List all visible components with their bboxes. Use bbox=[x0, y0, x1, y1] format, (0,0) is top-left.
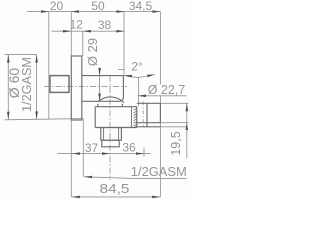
arrow 2deg left bbox=[124, 75, 132, 78]
arrow 38-left bbox=[83, 30, 91, 33]
svg-text:38: 38 bbox=[98, 18, 112, 32]
arrow dia29 top bbox=[98, 68, 101, 76]
thread hatch marks bbox=[134, 108, 137, 127]
arrow dia22,7 leader bbox=[138, 95, 146, 98]
nut chamfer left bbox=[103, 128, 105, 141]
collar bottom extension bbox=[160, 126, 187, 128]
centerline main axis y=88.4 bbox=[44, 85, 127, 87]
svg-text:36: 36 bbox=[122, 141, 136, 155]
centerline outlet vertical x=110 bbox=[109, 76, 111, 181]
ext tick y=119.6 left, continues to x83.3 bbox=[5, 119, 84, 120]
extension line x=82.8 (12 right) bbox=[82, 31, 84, 56]
dome side right bbox=[121, 104, 123, 107]
right tube top extension to 19,5 bbox=[160, 102, 188, 104]
right tube bottom bbox=[137, 122, 161, 124]
arrow 38-right bbox=[116, 30, 124, 33]
extension line x=48.8 (wall ref) bbox=[48, 12, 50, 120]
shoulder line bbox=[95, 106, 137, 108]
dome side left bbox=[97, 104, 99, 107]
svg-text:12: 12 bbox=[70, 18, 84, 32]
centerline right tube vertical bbox=[142, 102, 144, 128]
nut chamfer right bbox=[118, 128, 120, 141]
dia60 dim line bbox=[7, 55, 9, 120]
body block left edge bbox=[94, 107, 96, 128]
dimension row2 line (12/38) bbox=[52, 30, 125, 32]
19,5 dim line bbox=[186, 103, 188, 158]
dia22,7 underline + leader bbox=[138, 95, 187, 97]
ext tick y=54.6 left bbox=[5, 54, 38, 56]
arrow 37-left bbox=[72, 152, 80, 155]
dimension row1 line (20/50/34,5) bbox=[27, 11, 160, 13]
2-deg tick left of ext bbox=[118, 69, 124, 71]
2-deg left arm bbox=[124, 75, 139, 77]
svg-text:37: 37 bbox=[85, 141, 99, 155]
arrow 12-left bbox=[63, 30, 71, 33]
svg-text:2°: 2° bbox=[131, 60, 143, 74]
arrow 19,5 top bbox=[186, 103, 189, 111]
gasm-bottom leader bbox=[84, 177, 187, 179]
valve head right edge bbox=[122, 76, 124, 98]
extension line x=160.4 upper bbox=[159, 12, 161, 85]
right tube end bbox=[159, 103, 161, 122]
gasm-left dim line x=36.6 bbox=[36, 55, 38, 120]
arrow 84,5 left bbox=[72, 196, 80, 199]
body block right edge bbox=[136, 107, 138, 128]
extension line x=124 from dims to valve head bbox=[123, 12, 125, 76]
extension line x=160.4 lower bbox=[159, 96, 161, 197]
square thread tail bbox=[50, 76, 69, 93]
arrow dia60 top bbox=[7, 55, 10, 63]
tick x=144 for 36 bbox=[143, 148, 145, 157]
svg-text:Ø 29: Ø 29 bbox=[85, 38, 100, 66]
svg-text:19,5: 19,5 bbox=[169, 131, 183, 155]
arrow gasm-left bottom bbox=[35, 111, 38, 119]
arrow 50-left bbox=[71, 10, 79, 13]
svg-text:20: 20 bbox=[50, 0, 64, 13]
svg-text:1/2GASM: 1/2GASM bbox=[19, 57, 34, 112]
arrow 34,5-right bbox=[152, 10, 160, 13]
arrow 50-right bbox=[116, 10, 124, 13]
outlet stub bbox=[102, 140, 119, 147]
svg-text:Ø 22,7: Ø 22,7 bbox=[148, 83, 186, 97]
right tube hex end bbox=[146, 103, 148, 127]
svg-text:1/2GASM: 1/2GASM bbox=[131, 164, 187, 179]
tube bottom edge bbox=[82, 98, 124, 102]
dome arc bbox=[98, 97, 124, 103]
tube top edge bbox=[82, 75, 124, 77]
arrow gasm-left top bbox=[35, 55, 38, 63]
body block bottom bbox=[95, 127, 137, 129]
svg-text:34,5: 34,5 bbox=[129, 0, 153, 13]
thread start line bbox=[131, 107, 133, 128]
right tube collar bottom bbox=[137, 126, 161, 128]
extension line x=71.3 below flange to 84,5 bbox=[70, 120, 72, 197]
arrow 2deg right bbox=[147, 75, 155, 78]
arrow 84,5 right bbox=[152, 196, 160, 199]
arrow dia29 bottom bbox=[98, 94, 101, 102]
extension line x=71.3 above flange bbox=[70, 12, 72, 56]
right tube top bbox=[137, 102, 161, 104]
dia29 dim line bbox=[99, 68, 101, 102]
arrow 36-right bbox=[136, 152, 144, 155]
svg-text:84,5: 84,5 bbox=[100, 181, 130, 196]
stem axis line bbox=[138, 77, 140, 106]
37/36 dim line bbox=[58, 153, 151, 155]
84,5 dim line bbox=[72, 196, 161, 198]
arrow dia60 bottom bbox=[7, 112, 10, 120]
arrow 20-left bbox=[41, 10, 49, 13]
right tube bottom extension to 19,5 bbox=[160, 122, 188, 124]
outlet nut bbox=[101, 128, 122, 141]
2-deg right arm bbox=[139, 74, 155, 77]
arrow 37-right bbox=[102, 152, 110, 155]
svg-text:50: 50 bbox=[91, 0, 105, 13]
flange rect bbox=[71, 56, 82, 120]
arrow gasm-bottom leader bbox=[84, 176, 92, 179]
arrow 19,5 bottom bbox=[186, 123, 189, 130]
L reference line to 37 dim bbox=[82, 119, 84, 177]
